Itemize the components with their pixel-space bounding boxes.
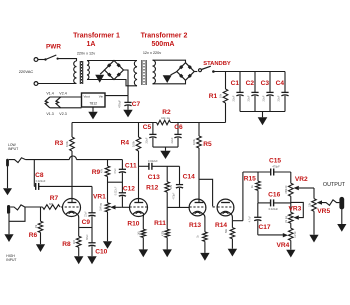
switch PWR: [38, 55, 59, 61]
wire cathode V1 node: [79, 227, 92, 229]
svg-text:R4: R4: [121, 139, 130, 146]
value R9: [101, 168, 104, 173]
jack J3 OUTPUT: [339, 197, 344, 210]
resistor R14: [230, 221, 235, 249]
wire jack shorting contact: [9, 207, 25, 221]
value C8: [36, 179, 46, 183]
wire BR1 output to regulator: [105, 70, 128, 102]
svg-text:1k5: 1k5: [138, 231, 141, 236]
svg-text:Transformer 1: Transformer 1: [73, 33, 120, 40]
value VR5: [309, 202, 312, 207]
svg-text:C12: C12: [123, 186, 135, 193]
ground jack J3: [337, 210, 346, 232]
node 220VAC input terminal (line): [34, 58, 38, 62]
svg-text:R2: R2: [162, 109, 171, 116]
wire HIGH input line: [25, 206, 43, 208]
label R8: [62, 241, 71, 248]
heater filament V1 V2 chevron 2: [56, 97, 61, 108]
value R2: [161, 116, 171, 120]
label R3: [55, 140, 64, 147]
value R1: [219, 93, 223, 98]
ground R11: [163, 249, 172, 257]
label HIGH INPUT: [6, 254, 16, 262]
heater filament V1 V2 chevron 1: [45, 97, 50, 108]
value R12: [170, 184, 173, 189]
capacitor C2: [251, 72, 258, 112]
label C17: [258, 224, 270, 231]
ground bridge BR1: [95, 70, 104, 83]
wire switch to transformer1 primary: [58, 59, 77, 61]
wire R4 to V2 plate: [138, 151, 140, 202]
label R5: [203, 141, 212, 148]
svg-text:470pF: 470pF: [272, 165, 280, 169]
svg-text:0.022uF: 0.022uF: [148, 159, 158, 163]
ground R13: [200, 253, 209, 261]
svg-text:7812: 7812: [89, 101, 97, 105]
wire T2 secondary top to bridge BR2: [153, 60, 186, 63]
svg-text:4.7uF: 4.7uF: [249, 215, 252, 222]
wire C5 C6 bottom: [153, 146, 178, 148]
value R5: [192, 138, 196, 145]
label C12: [123, 186, 135, 193]
svg-text:C8: C8: [35, 172, 44, 179]
svg-text:10k: 10k: [219, 93, 223, 98]
wire HIGH tip contact: [10, 205, 24, 210]
svg-text:R11: R11: [154, 220, 166, 227]
capacitor C3: [266, 72, 273, 112]
tube V2 triode: [130, 199, 148, 218]
regulator U1 7812: [82, 93, 106, 107]
value C13: [148, 159, 158, 163]
label R6: [29, 232, 38, 239]
resistor R5: [197, 123, 202, 149]
svg-text:R10: R10: [127, 221, 139, 228]
tube V3 triode: [189, 199, 206, 217]
value C1: [231, 95, 235, 101]
jack J2 HIGH input: [7, 205, 10, 214]
svg-text:V1.4: V1.4: [46, 91, 53, 95]
wire VR5 wiper to output jack: [322, 200, 339, 206]
svg-text:22uF: 22uF: [170, 137, 174, 143]
transformer T1 secondary winding: [87, 61, 89, 80]
value R10: [138, 231, 141, 236]
value C5: [145, 137, 149, 143]
svg-text:C14: C14: [183, 174, 195, 181]
wire V4 cathode: [232, 172, 243, 221]
potentiometer VR5: [312, 199, 322, 212]
value R13: [196, 234, 199, 237]
svg-text:0.022uF: 0.022uF: [269, 207, 279, 211]
svg-text:C5: C5: [143, 124, 152, 131]
node 220VAC input terminal (neutral): [34, 82, 38, 86]
svg-text:500mA: 500mA: [152, 41, 175, 48]
resistor R10: [141, 229, 146, 249]
svg-text:R3: R3: [55, 140, 64, 147]
wire B+ top bus: [213, 71, 285, 73]
bridge rectifier BR2: [177, 63, 194, 81]
label Transformer 2: [141, 33, 188, 40]
wire R3 to V1 plate: [71, 151, 73, 202]
capacitor C13: [149, 163, 152, 170]
svg-text:R12: R12: [146, 185, 158, 192]
svg-text:100k: 100k: [192, 138, 196, 145]
label R14: [215, 222, 227, 229]
value R14: [225, 228, 228, 233]
svg-text:47uF: 47uF: [114, 168, 117, 174]
resistor R4: [136, 123, 141, 152]
svg-text:100k: 100k: [132, 140, 136, 147]
svg-text:68uF: 68uF: [86, 234, 89, 240]
wire LOW input line: [26, 156, 123, 160]
svg-text:C7: C7: [132, 101, 141, 108]
svg-text:22uF: 22uF: [145, 137, 149, 143]
value C16: [269, 207, 279, 211]
svg-text:68k: 68k: [49, 202, 54, 206]
ground C10: [87, 256, 96, 264]
capacitor C9: [88, 213, 95, 228]
label V1.4: [46, 91, 53, 95]
label 500mA: [152, 41, 175, 48]
label C5: [143, 124, 152, 131]
ground jack J1: [3, 167, 12, 196]
svg-text:22uF: 22uF: [231, 95, 235, 101]
capacitor C15: [271, 169, 274, 176]
potentiometer VR3: [289, 202, 304, 223]
svg-text:C16: C16: [268, 192, 280, 199]
wire node B: [258, 202, 291, 204]
label V2.4: [59, 91, 66, 95]
capacitor C12: [119, 193, 126, 208]
ground VR5: [309, 211, 318, 242]
wire to C8: [34, 160, 35, 187]
svg-text:R9: R9: [92, 169, 101, 176]
svg-text:V1.3: V1.3: [46, 112, 53, 116]
label C2: [246, 80, 255, 87]
wire B+ rail: [72, 122, 226, 124]
resistor R7: [43, 205, 61, 210]
value C12: [114, 186, 117, 195]
label C1: [231, 80, 240, 87]
value C17: [249, 215, 252, 222]
svg-text:470uF: 470uF: [118, 100, 122, 108]
svg-text:Vout: Vout: [84, 95, 90, 99]
value R11: [161, 230, 164, 236]
svg-text:22uF: 22uF: [276, 95, 280, 101]
label VR3: [288, 206, 301, 213]
svg-text:220v x 12v: 220v x 12v: [77, 52, 95, 56]
value VR2: [285, 185, 288, 194]
svg-text:C17: C17: [258, 224, 270, 231]
svg-text:R15: R15: [244, 176, 256, 183]
wire heater bottom rail: [50, 107, 82, 109]
wire grid junction to V3: [167, 206, 189, 208]
transformer T2 core: [142, 60, 146, 85]
wire C13 to R12 C14: [152, 165, 180, 167]
svg-text:1M: 1M: [35, 225, 38, 228]
svg-text:12v x 220v: 12v x 220v: [143, 51, 161, 55]
wire VR2 wiper to VR5: [313, 188, 315, 199]
label C6: [174, 124, 183, 131]
wire V3 cathode: [204, 218, 206, 232]
wire filter bottom bus: [240, 111, 285, 113]
capacitor C5: [149, 123, 156, 148]
value VR4: [294, 231, 297, 238]
label C15: [269, 158, 281, 165]
label C8: [35, 172, 44, 179]
label C4: [276, 80, 285, 87]
label C3: [261, 80, 270, 87]
label VR1: [93, 194, 106, 201]
value R7: [49, 202, 54, 206]
label C9: [82, 219, 91, 226]
value C15: [272, 165, 280, 169]
ground regulator 7812: [88, 107, 97, 119]
label VR5: [317, 208, 330, 215]
label 12v x 220v: [143, 51, 161, 55]
value C3: [261, 95, 265, 101]
ground R14: [228, 249, 237, 257]
resistor R2: [157, 120, 171, 125]
wire V2 cathode: [142, 218, 144, 230]
wire C17 to VR4 wiper: [258, 234, 283, 236]
wire V1 cathode: [78, 218, 80, 228]
value R15: [251, 184, 254, 187]
label LOW INPUT: [8, 143, 18, 151]
ground jack J2: [4, 214, 13, 242]
capacitor C6: [174, 123, 181, 148]
potentiometer VR2: [289, 172, 315, 196]
wire neutral to transformer1 primary: [38, 83, 77, 85]
label R9: [92, 169, 101, 176]
svg-text:1M log: 1M log: [285, 215, 288, 223]
svg-text:250k lin: 250k lin: [285, 185, 288, 194]
svg-text:22uF: 22uF: [261, 95, 265, 101]
svg-text:100k: 100k: [65, 140, 69, 147]
resistor R13: [203, 232, 208, 253]
label C13: [148, 174, 160, 181]
resistor R8: [76, 228, 81, 257]
label 1A: [87, 41, 96, 48]
svg-text:INPUT: INPUT: [8, 147, 18, 151]
svg-text:C2: C2: [246, 80, 255, 87]
ground bridge BR2: [163, 72, 177, 84]
svg-text:R6: R6: [29, 232, 38, 239]
value R4: [132, 140, 136, 147]
svg-text:R1: R1: [209, 93, 218, 100]
wire VR1 wiper to V2 grid: [121, 206, 129, 208]
label R7: [50, 195, 59, 202]
svg-text:INPUT: INPUT: [6, 258, 16, 262]
svg-text:R7: R7: [50, 195, 59, 202]
wire V4 grid dashes: [213, 206, 218, 208]
wire V2 plate to C13: [139, 165, 149, 167]
resistor R6: [38, 207, 43, 244]
tube V4 triode: [217, 199, 234, 217]
resistor R1: [223, 72, 228, 123]
transformer T1 core: [80, 61, 82, 84]
capacitor C16: [271, 199, 274, 206]
svg-text:C3: C3: [261, 80, 270, 87]
wire T2 secondary bottom to bridge BR2: [153, 80, 186, 84]
label VR2: [295, 176, 308, 183]
svg-text:22uF: 22uF: [84, 211, 87, 217]
svg-text:PWR: PWR: [46, 43, 61, 50]
value R8: [73, 239, 76, 244]
label R2: [162, 109, 171, 116]
capacitor C10: [88, 228, 95, 257]
value C4: [276, 95, 280, 101]
value VR3: [285, 215, 288, 223]
wire V3 plate to V4 grid: [199, 179, 213, 206]
svg-text:C11: C11: [125, 163, 137, 170]
svg-text:R14: R14: [215, 222, 227, 229]
svg-text:C10: C10: [95, 249, 107, 256]
svg-text:1A: 1A: [87, 41, 96, 48]
ground VR1: [103, 212, 112, 249]
wire heater top rail: [50, 96, 82, 98]
svg-text:R8: R8: [62, 241, 71, 248]
value R6: [35, 225, 38, 228]
resistor R15: [256, 172, 261, 203]
label Transformer 1: [73, 33, 120, 40]
svg-text:1M lin: 1M lin: [294, 231, 297, 238]
label C11: [125, 163, 137, 170]
wire R5 to V3 plate: [198, 148, 200, 202]
value C14: [173, 192, 176, 199]
label C7: [132, 101, 141, 108]
label R15: [244, 176, 256, 183]
bridge rectifier BR1: [105, 61, 124, 80]
potentiometer VR4: [283, 223, 293, 240]
resistor R9: [105, 160, 110, 203]
resistor R12: [165, 166, 170, 207]
ground R10: [139, 249, 148, 257]
svg-text:C13: C13: [148, 174, 160, 181]
svg-text:C4: C4: [276, 80, 285, 87]
svg-text:VR3: VR3: [288, 206, 301, 213]
jack J1 LOW input: [6, 159, 9, 167]
label STANDBY: [203, 61, 231, 67]
svg-text:VR2: VR2: [295, 176, 308, 183]
label R1: [209, 93, 218, 100]
svg-text:22uF: 22uF: [246, 95, 250, 101]
label V1.3: [46, 112, 53, 116]
value VR1: [100, 203, 103, 211]
svg-text:0.022uF: 0.022uF: [36, 179, 46, 183]
svg-text:OUTPUT: OUTPUT: [323, 182, 346, 188]
ground VR4: [286, 240, 295, 257]
ground R8: [74, 256, 83, 264]
svg-text:10k 1w: 10k 1w: [161, 116, 171, 120]
capacitor C17: [254, 203, 261, 235]
capacitor C14: [176, 166, 183, 207]
capacitor C1: [236, 72, 243, 112]
ground C7: [123, 105, 132, 117]
value C10: [86, 234, 89, 240]
label VR4: [276, 242, 289, 249]
svg-text:1k5: 1k5: [73, 239, 76, 244]
value C6: [170, 137, 174, 143]
svg-text:470pF: 470pF: [173, 192, 176, 199]
svg-text:470k: 470k: [161, 230, 164, 236]
label V2.3: [59, 112, 66, 116]
svg-text:R13: R13: [189, 222, 201, 229]
label PWR: [46, 43, 61, 50]
svg-text:C15: C15: [269, 158, 281, 165]
wire LOW tip contact: [9, 158, 26, 163]
value C9: [84, 211, 87, 217]
svg-text:VR5: VR5: [317, 208, 330, 215]
label R13: [189, 222, 201, 229]
transformer T2 primary winding: [134, 61, 137, 86]
ground filter bus: [258, 112, 268, 126]
tube V1 triode: [61, 199, 81, 218]
svg-text:C9: C9: [82, 219, 91, 226]
svg-text:C1: C1: [231, 80, 240, 87]
label R11: [154, 220, 166, 227]
resistor R11: [165, 207, 170, 249]
capacitor C4: [281, 72, 288, 112]
svg-text:C6: C6: [174, 124, 183, 131]
svg-text:VR1: VR1: [93, 194, 106, 201]
label R12: [146, 185, 158, 192]
label OUTPUT: [323, 182, 346, 188]
label R10: [127, 221, 139, 228]
transformer T1 primary winding: [74, 61, 77, 84]
label C16: [268, 192, 280, 199]
wire T1 secondary top to bridge and T2 primary: [87, 60, 137, 62]
capacitor C11: [119, 160, 126, 193]
svg-text:VR4: VR4: [276, 242, 289, 249]
potentiometer VR1: [105, 203, 121, 212]
label C10: [95, 249, 107, 256]
value C2: [246, 95, 250, 101]
transformer T2 secondary winding: [153, 60, 156, 84]
wire R9 to C11 link: [108, 181, 123, 183]
svg-text:V2.3: V2.3: [59, 112, 66, 116]
resistor R3: [70, 123, 75, 152]
capacitor C8: [36, 183, 39, 190]
svg-text:220VAC: 220VAC: [19, 69, 34, 74]
svg-text:R5: R5: [203, 141, 212, 148]
value C11: [114, 168, 117, 174]
svg-text:Transformer 2: Transformer 2: [141, 33, 188, 40]
wire VR2 bottom to VR3: [290, 196, 292, 212]
svg-text:0.022uF: 0.022uF: [114, 186, 117, 195]
ground R6: [36, 244, 45, 252]
value C7 470uF: [118, 100, 122, 108]
svg-text:1M log: 1M log: [100, 203, 103, 211]
svg-text:STANDBY: STANDBY: [203, 61, 231, 67]
svg-text:Vin: Vin: [99, 95, 104, 99]
switch STANDBY: [194, 66, 215, 73]
wire C8 to C9: [39, 186, 92, 212]
label 220v x 12v: [77, 52, 95, 56]
label C14: [183, 174, 195, 181]
ground C5 C6: [160, 147, 170, 159]
wire T1 secondary bottom to bridge and T2 primary: [87, 80, 137, 86]
label R4: [121, 139, 130, 146]
svg-text:V2.4: V2.4: [59, 91, 66, 95]
label 220VAC: [19, 69, 34, 74]
wire output node A: [243, 171, 291, 173]
capacitor C7: [124, 102, 131, 105]
value R3: [65, 140, 69, 147]
